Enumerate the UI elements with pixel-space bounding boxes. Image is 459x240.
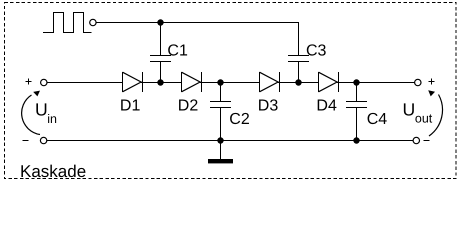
svg-text:in: in: [47, 112, 57, 126]
diode D1 anode edge: [122, 72, 124, 92]
Uout arrowhead: [428, 90, 435, 96]
junction node: top rail / C1: [157, 19, 163, 25]
wire: D1 to D2: [141, 82, 181, 84]
junction node: bottom rail / C2 / ground: [217, 137, 223, 143]
input + terminal circle: [41, 79, 47, 85]
Uin arrowhead: [33, 91, 40, 97]
diode D4 diagonals: [319, 72, 338, 92]
wire: D2 to D3: [200, 82, 259, 84]
diode D2 diagonals: [182, 72, 201, 92]
wire: pulse terminal to corner above C3: [96, 23, 298, 56]
svg-text:Kaskade: Kaskade: [20, 162, 86, 181]
svg-text:C2: C2: [229, 111, 250, 128]
svg-text:D3: D3: [258, 98, 279, 115]
wire: C2 bottom lead: [220, 108, 222, 141]
pulse source terminal circle: [90, 19, 96, 25]
diode D2 cathode bar: [201, 72, 203, 92]
diode D3 cathode bar: [279, 72, 281, 92]
minus sign input: [22, 140, 28, 142]
svg-text:C3: C3: [306, 43, 327, 60]
wire: C4 bottom lead: [356, 108, 358, 141]
crisp straight wiring: [5, 3, 457, 179]
input - terminal circle: [40, 137, 46, 143]
svg-text:U: U: [35, 100, 48, 120]
capacitor C4 plates: [346, 102, 367, 108]
svg-text:out: out: [415, 112, 433, 126]
capacitor C1 plates: [150, 56, 171, 62]
diode D1 diagonals: [123, 72, 142, 92]
svg-text:U: U: [403, 100, 416, 120]
svg-text:D4: D4: [316, 98, 337, 115]
capacitor C3 plates: [288, 56, 309, 62]
junction node: D3-D4 / C3: [295, 79, 301, 85]
ground bar: [208, 159, 233, 163]
junction node: D2-D3 / C2: [217, 79, 223, 85]
wire: C1 bottom lead: [160, 62, 162, 83]
capacitor C2 plates: [210, 102, 231, 108]
diode D1 cathode bar: [142, 72, 144, 92]
plus sign input: [25, 79, 31, 85]
svg-text:C4: C4: [367, 111, 388, 128]
svg-text:D2: D2: [178, 98, 199, 115]
wire: bottom rail: [47, 140, 413, 142]
output + terminal circle: [415, 79, 421, 85]
Uout arrow arc: [429, 95, 442, 137]
dashed frame border: [5, 3, 457, 179]
diode D3 anode edge: [259, 72, 261, 92]
pulse source waveform symbol: [43, 13, 92, 33]
junction node: D4-output / C4: [353, 79, 359, 85]
wire: C2 top lead: [220, 83, 222, 102]
output - terminal circle: [413, 137, 419, 143]
wire: D4 to output + terminal: [337, 82, 415, 84]
antialiased curves and diagonals: [22, 19, 443, 143]
junction node: D1-D2 / C1: [157, 79, 163, 85]
diode D4 cathode bar: [338, 72, 340, 92]
wire: C1 top lead: [160, 23, 162, 56]
wire: C4 top lead: [356, 83, 358, 102]
wire: C3 bottom lead: [298, 62, 300, 83]
wire: D3 to D4: [278, 82, 318, 84]
ground stub wire: [220, 141, 222, 159]
diode D4 anode edge: [318, 72, 320, 92]
wire: main line left terminal to D1 anode: [47, 82, 123, 84]
junction node: bottom rail / C4: [353, 137, 359, 143]
diode D3 diagonals: [260, 72, 279, 92]
plus sign output: [429, 79, 435, 85]
minus sign output: [423, 140, 429, 142]
svg-text:C1: C1: [167, 43, 188, 60]
Uin arrow arc: [22, 95, 40, 135]
diode D2 anode edge: [181, 72, 183, 92]
svg-text:D1: D1: [120, 98, 141, 115]
